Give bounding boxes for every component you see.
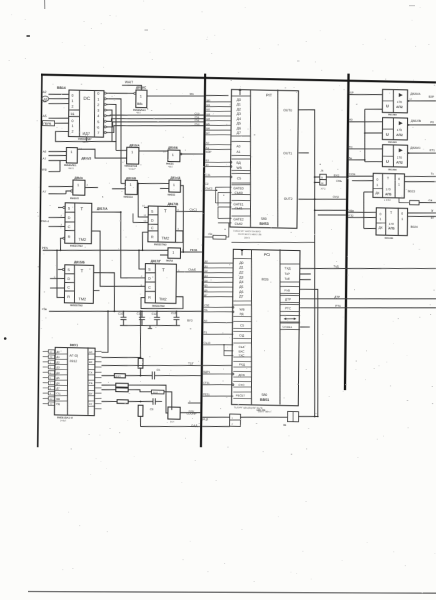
svg-text:ЧВЛ1: ЧВЛ1 [68,167,75,170]
svg-text:СЬС1: СЬС1 [189,207,197,211]
svg-text:0: 0 [71,93,73,97]
svg-text:ВВ: ВВ [56,398,60,401]
svg-text:580: 580 [261,393,267,397]
svg-text:9М555ТМ2: 9М555ТМ2 [152,305,165,308]
wire G4 output down to FF-B D input [138,183,149,217]
svg-text:9МЛА: 9МЛА [166,259,173,262]
svg-text:ЗЧВЛ: ЗЧВЛ [60,420,67,423]
svg-text:+5в: +5в [347,156,352,160]
resistor R13 pullup [399,197,410,202]
svg-text:2: 2 [71,130,73,134]
svg-text:А1: А1 [236,150,240,154]
svg-text:РЕS: РЕS [42,246,48,250]
node A3 circled input [42,96,49,101]
section divider 1 [200,74,206,448]
svg-text:4: 4 [97,114,99,118]
svg-text:Ш7: Ш7 [206,132,210,135]
svg-text:Ш1: Ш1 [206,104,210,107]
svg-text:С11: С11 [136,312,141,316]
svg-text:Д4: Д4 [56,372,60,375]
svg-text:С5: С5 [237,177,241,181]
wire P1 to PCI [203,334,233,335]
decoder D014 (DC ID7) [68,90,104,137]
svg-text:Д2: Д2 [56,361,60,364]
wire A0 to PCI [203,322,233,323]
svg-text:C: C [67,286,70,290]
svg-text:А5: А5 [43,114,47,118]
svg-text:А4: А4 [43,100,47,104]
svg-text:Д8Ь/в: Д8Ь/в [74,176,83,180]
svg-text:ДК: ДК [378,226,382,230]
scan artifact specks [27,35,30,37]
svg-text:9М555А: 9М555А [123,196,133,199]
svg-text:ТХ34: ТХ34 [349,172,356,176]
svg-text:|РЦ3: |РЦ3 [202,417,209,421]
svg-text:Д6: Д6 [237,126,241,130]
svg-text:ТМ2: ТМ2 [78,297,86,301]
driver В023 [373,173,405,198]
svg-text:0: 0 [398,177,400,181]
wire RES tap to FF-B R [142,232,148,250]
svg-text:С10: С10 [118,312,124,316]
wire select line C51 [109,117,204,123]
wire decoder out1 [108,99,122,184]
svg-text:В023: В023 [408,189,416,193]
svg-text:Д817/А: Д817/А [97,207,109,211]
svg-text:U: U [386,104,389,108]
svg-text:ВЗР: ВЗР [206,150,212,154]
svg-text:ВС2: ВС2 [203,182,209,186]
svg-text:7: 7 [97,131,99,135]
svg-text:Т: Т [80,206,83,211]
svg-text:Д4: Д4 [239,280,243,284]
svg-text:Д5: Д5 [239,285,243,289]
svg-text:ЧВЛ: ЧВЛ [136,111,141,114]
svg-text:+5в: +5в [42,307,48,311]
svg-text:ВДР1: ВДР1 [203,371,210,374]
wire COUNR to divider [180,411,200,414]
svg-text:ЧВЛ: ЧВЛ [168,165,173,168]
wire ff D817/G Qbar loop [141,296,183,309]
pin 28 ic D021 [48,355,54,359]
svg-text:ВВ14: ВВ14 [57,86,66,90]
svg-text:ИД7: ИД7 [82,132,89,136]
svg-text:C: C [68,225,71,229]
svg-text:ДТР: ДТР [285,297,291,301]
svg-text:1: 1 [379,217,381,221]
svg-text:ТМ2: ТМ2 [78,238,86,242]
wire +5V drop to ic pin [102,311,109,352]
wire RxD down [299,289,320,417]
svg-text:1: 1 [97,97,99,101]
svg-text:U: U [386,160,389,164]
wire gate RC3B output [181,251,203,254]
svg-text:WВ: WВ [42,168,47,172]
wire XP4 to clock verticals [299,415,318,418]
svg-text:C: C [151,226,154,230]
ff D815/B pins [62,268,64,270]
svg-text:Д3: Д3 [56,366,60,369]
resistor R32 [116,388,128,392]
svg-text:Д822/В: Д822/В [411,119,421,123]
wire box5 outputs [408,212,436,213]
svg-text:РхВ: РхВ [284,288,290,292]
svg-text:1: 1 [376,183,378,187]
gate D816/E [168,150,180,162]
svg-text:ОUТ0: ОUТ0 [283,109,292,113]
wire RT32 tap [318,214,346,215]
wire GND line [141,425,201,427]
wire DTR output [300,296,436,301]
svg-text:1: 1 [70,150,72,154]
svg-text:WВ: WВ [236,166,241,170]
resistor R31 [116,383,128,387]
svg-text:0: 0 [71,119,73,123]
svg-text:РIТ: РIТ [266,92,273,97]
resistor R1 vertical [138,358,143,368]
svg-text:С/Д: С/Д [239,333,245,337]
svg-text:АП2: АП2 [396,160,403,164]
svg-text:РТС: РТС [285,306,292,310]
svg-text:0: 0 [379,212,381,216]
wire RESET to PCI [203,395,234,396]
svg-text:1: 1 [130,183,132,187]
svg-text:ВИ53: ВИ53 [259,222,268,226]
svg-text:ТХС: ТХС [238,353,245,357]
svg-text:АП5: АП5 [385,192,392,196]
wire note box bottom [232,241,315,244]
pin 8 ic D021 [48,386,54,390]
capacitor C9 [152,398,154,404]
svg-text:Д81с/Д: Д81с/Д [170,176,180,180]
svg-text:Ш3: Ш3 [206,113,210,116]
svg-text:+5в: +5в [428,198,433,202]
wire RD WR to PIT [205,161,230,164]
svg-text:ОUТ2: ОUТ2 [284,197,293,201]
wire RES tap to FF-C R [56,250,65,297]
svg-text:ТХД: ТХД [284,266,291,270]
svg-text:ДК: ДК [375,191,379,195]
svg-text:0: 0 [401,212,403,216]
pin 23 ic D021 [48,402,54,406]
svg-text:СЕУ0 ВЕУ1 НВУ2 ЛВ: СЕУ0 ВЕУ1 НВУ2 ЛВ [238,233,262,236]
svg-text:СЬК1: СЬК1 [235,206,243,210]
wire rail drop to R1 [140,311,141,358]
svg-text:ЧНВЛ: ЧНВЛ [128,168,135,171]
svg-text:9М555ТМ2: 9М555ТМ2 [70,244,83,247]
svg-text:Д815/Б: Д815/Б [74,260,86,264]
svg-text:ВЗР: ВЗР [429,95,435,99]
wire select line C52 [108,120,203,129]
ic D021 (8912) [54,347,95,415]
svg-text:ВЗ: ВЗ [206,159,210,162]
pin 22 ic D021 [48,397,54,401]
wire jumper XP3 to XP4 [240,416,287,418]
svg-text:ТХ: ТХ [89,372,93,375]
svg-text:СЦ: СЦ [56,393,60,396]
ff D815/B lower [64,265,93,304]
pin 2 ic D021 [48,365,54,369]
svg-text:ЦВУ-ЛВ: ЦВУ-ЛВ [256,409,265,412]
svg-text:Ш5: Ш5 [206,123,210,126]
wire gate D815/A output [139,150,168,151]
svg-text:ПВРВ: ПВРВ [43,122,51,126]
svg-text:СЬ13: СЬ13 [204,342,211,345]
wire TxD output [300,266,436,271]
capacitor С13 [175,311,177,317]
crystal COUNR box [168,407,180,419]
svg-text:ЕТ1: ЕТ1 [430,148,436,152]
svg-text:Ш0: Ш0 [206,99,210,102]
svg-text:ТхЕ: ТхЕ [284,277,289,281]
svg-text:C: C [148,286,151,290]
wire gate D816/D output to vertical [180,185,184,252]
svg-text:9М1486: 9М1486 [384,237,393,240]
svg-text:D: D [148,276,151,280]
svg-text:ТхД: ТхД [333,264,338,268]
wire RxD line from ic to PCI [102,363,232,368]
svg-text:Д5: Д5 [56,377,60,380]
svg-text:РХД: РХД [239,363,245,367]
PIT data arrow [239,91,241,95]
wire ff D815/B Q output [93,272,115,311]
gate D815/A [127,147,139,164]
svg-text:СТ31: СТ31 [203,382,210,385]
wire select line C50 [108,113,203,117]
section divider 2 [344,74,350,391]
svg-text:С13: С13 [171,311,177,315]
scan artifact: short vertical line top [44,0,46,9]
wire DSR to PCI [203,373,232,374]
svg-text:РД: РД [56,403,60,406]
wire A0 A1 to PIT [205,144,231,145]
svg-text:Д815/А: Д815/А [129,143,140,147]
svg-text:С9: С9 [150,407,154,411]
svg-text:2: 2 [71,104,73,108]
driver В024 [376,208,408,236]
capacitor С11 [141,311,143,317]
wire GND crossing divider [202,426,229,427]
svg-text:А2: А2 [43,90,47,94]
svg-text:R: R [68,235,71,239]
svg-text:Т: Т [80,269,83,274]
svg-text:Д3: Д3 [237,112,241,116]
wire CTS to PCI [203,384,233,385]
wire CSE and AL [204,307,233,308]
svg-text:Д2: Д2 [237,107,241,111]
svg-text:СЬК0: СЬК0 [235,191,243,195]
ff D817/B [148,206,176,242]
svg-text:РЕЗВ: РЕЗВ [190,248,198,252]
svg-text:СМЬ: СМЬ [336,180,342,183]
svg-text:D: D [68,216,71,220]
line driver Д820/С [382,145,407,167]
svg-text:Д817/Г: Д817/Г [151,259,162,263]
svg-text:СТС: СТС [238,383,245,387]
pin 1 ic D021 [48,360,54,364]
wire decoder enable loop [55,131,116,150]
svg-text:ВХ: ВХ [89,361,93,364]
pin 5 ic D021 [48,371,54,375]
resistor R34 [151,390,164,394]
svg-text:ЮМ+4: ЮМ+4 [41,219,50,223]
svg-text:1: 1 [140,95,142,99]
svg-text:ВТ: ВТ [431,216,435,220]
page bottom edge line [28,592,436,594]
svg-text:СЬЬЕ: СЬЬЕ [188,267,196,271]
wire ff D817/A Qbar to FF-D C input [91,231,146,287]
wire RTS output [300,305,436,310]
svg-text:1: 1 [172,153,174,157]
capacitor С10 [122,311,124,317]
svg-text:ЗВУЗ: ЗВУЗ [244,236,250,239]
svg-text:U: U [386,133,389,137]
svg-text:СЕ: СЕ [89,382,93,385]
resistor R2 vertical [138,405,143,416]
svg-text:Д6: Д6 [239,290,243,294]
wire CL13 clock to PCI [203,344,233,345]
svg-text:ОУ|2: ОУ|2 [333,195,340,199]
svg-text:Р1: Р1 [204,331,208,334]
svg-text:СЬК2: СЬК2 [235,222,243,226]
svg-text:9М1488: 9М1488 [388,113,397,116]
svg-text:580: 580 [261,217,267,221]
svg-text:Д5: Д5 [237,121,241,125]
wire CLK2 input and gate clk bracket [205,189,217,191]
svg-text:Д820/А: Д820/А [410,92,421,96]
svg-text:А0: А0 [204,320,208,323]
pin 9 ic D021 [48,391,54,395]
wire box4 second input [352,179,373,182]
svg-text:ТхР: ТхР [284,272,289,276]
svg-text:9М1489: 9М1489 [388,141,397,144]
node PVRV boxed input [43,121,55,126]
svg-text:С53: С53 [195,123,200,126]
svg-text:Д7: Д7 [56,387,60,390]
resistor R30 [114,374,125,378]
gate RC3B [168,248,181,259]
svg-text:8026: 8026 [261,277,268,281]
svg-text:4Н0: 4Н0 [347,118,353,122]
pin 27 ic D021 [48,350,54,354]
wire decoder out2 [108,104,116,141]
svg-text:Д820/С: Д820/С [410,146,421,150]
PIT data bus wires [206,101,232,102]
wire TxR TxE stubs [300,273,311,275]
svg-text:ХТ: ХТ [89,403,93,406]
wire gate D815/B output [137,183,169,184]
svg-text:РЕСЕТ: РЕСЕТ [236,394,246,398]
PCI data arrow [241,251,243,256]
svg-text:РТС: РТС [335,304,341,308]
wire gate D815/G output [85,186,98,189]
svg-text:D: D [151,218,154,222]
svg-text:ВВ: ВВ [137,102,142,106]
svg-text:0: 0 [376,177,378,181]
svg-text:Д817/В: Д817/В [167,202,179,206]
svg-text:Д0: Д0 [239,261,243,265]
ic PCI 580VV51 [232,249,300,406]
ff D817/B pins [144,206,148,208]
svg-text:ВУ|2: ВУ|2 [334,174,340,177]
wire driver supply bus [364,109,365,162]
line driver Д822/В [382,118,407,140]
pin 7 ic D021 [48,381,54,385]
svg-text:С31: С31 [206,174,211,177]
svg-text:Д7: Д7 [237,131,241,135]
wire jumper to divider2 TX3A [326,176,346,179]
wire OUT1 stub [298,152,308,154]
svg-text:J4: J4 [320,168,323,172]
PCI mode arrow [284,318,296,320]
svg-text:|ЧУ!: |ЧУ! [170,420,175,423]
svg-text:5УНВЕ1: 5УНВЕ1 [282,326,292,329]
capacitor С12 [156,311,158,317]
svg-text:WВ: WВ [239,307,244,311]
svg-text:1: 1 [401,217,403,221]
svg-text:Д3: Д3 [239,275,243,279]
svg-text:РСI: РСI [264,252,271,257]
svg-text:GАД: GАД [191,424,197,428]
svg-text:Ш2: Ш2 [206,109,210,112]
capacitor C5 [151,371,153,379]
wire CS1 to PIT [205,175,230,178]
wire ff D817/B Qbar loop [176,231,183,243]
svg-text:9МФУЛ: 9МФУЛ [70,197,79,200]
ff D815/C WAIT [136,90,147,108]
wire driver A output [408,100,436,101]
svg-text:Д1: Д1 [239,266,243,270]
svg-text:Ш4: Ш4 [206,118,210,121]
svg-text:1: 1 [71,124,73,128]
svg-text:СТС: СТС [347,145,353,149]
svg-text:1: 1 [173,183,175,187]
jumper XP4 block [287,412,298,422]
ic PIT 580VI53 [230,89,299,228]
svg-text:А6: А6 [43,150,47,154]
svg-text:Д6: Д6 [56,382,60,385]
svg-text:А0: А0 [89,351,93,354]
svg-text:АП2: АП2 [396,105,403,109]
frame top border [41,74,436,84]
svg-text:1: 1 [71,99,73,103]
svg-text:ДТР: ДТР [334,295,340,299]
ff D817/A pins [63,206,65,208]
svg-text:Д2: Д2 [239,270,243,274]
gate D816/D [169,180,181,192]
svg-text:WAIT: WAIT [125,80,133,84]
svg-text:ОИН: ОИН [188,410,194,413]
svg-text:М1: М1 [190,92,195,96]
svg-text:2: 2 [97,103,99,107]
svg-text:DC: DC [83,96,90,101]
svg-text:АГ-О|: АГ-О| [69,354,78,358]
svg-text:170: 170 [397,128,402,132]
wire driver C output [408,153,436,154]
svg-text:С5: С5 [240,323,244,327]
svg-text:R: R [148,296,151,300]
svg-text:1: 1 [77,183,79,187]
svg-text:ЗГ: ЗГ [431,209,435,213]
PCI data bus wires [204,263,233,264]
svg-text:170: 170 [397,100,402,104]
svg-text:170: 170 [389,222,394,226]
svg-text:Ш6: Ш6 [206,127,210,130]
pin 6 ic D021 [48,376,54,380]
ff D817/G [145,264,176,304]
svg-text:9М555: 9М555 [167,193,175,196]
wire driver B output [408,124,436,125]
